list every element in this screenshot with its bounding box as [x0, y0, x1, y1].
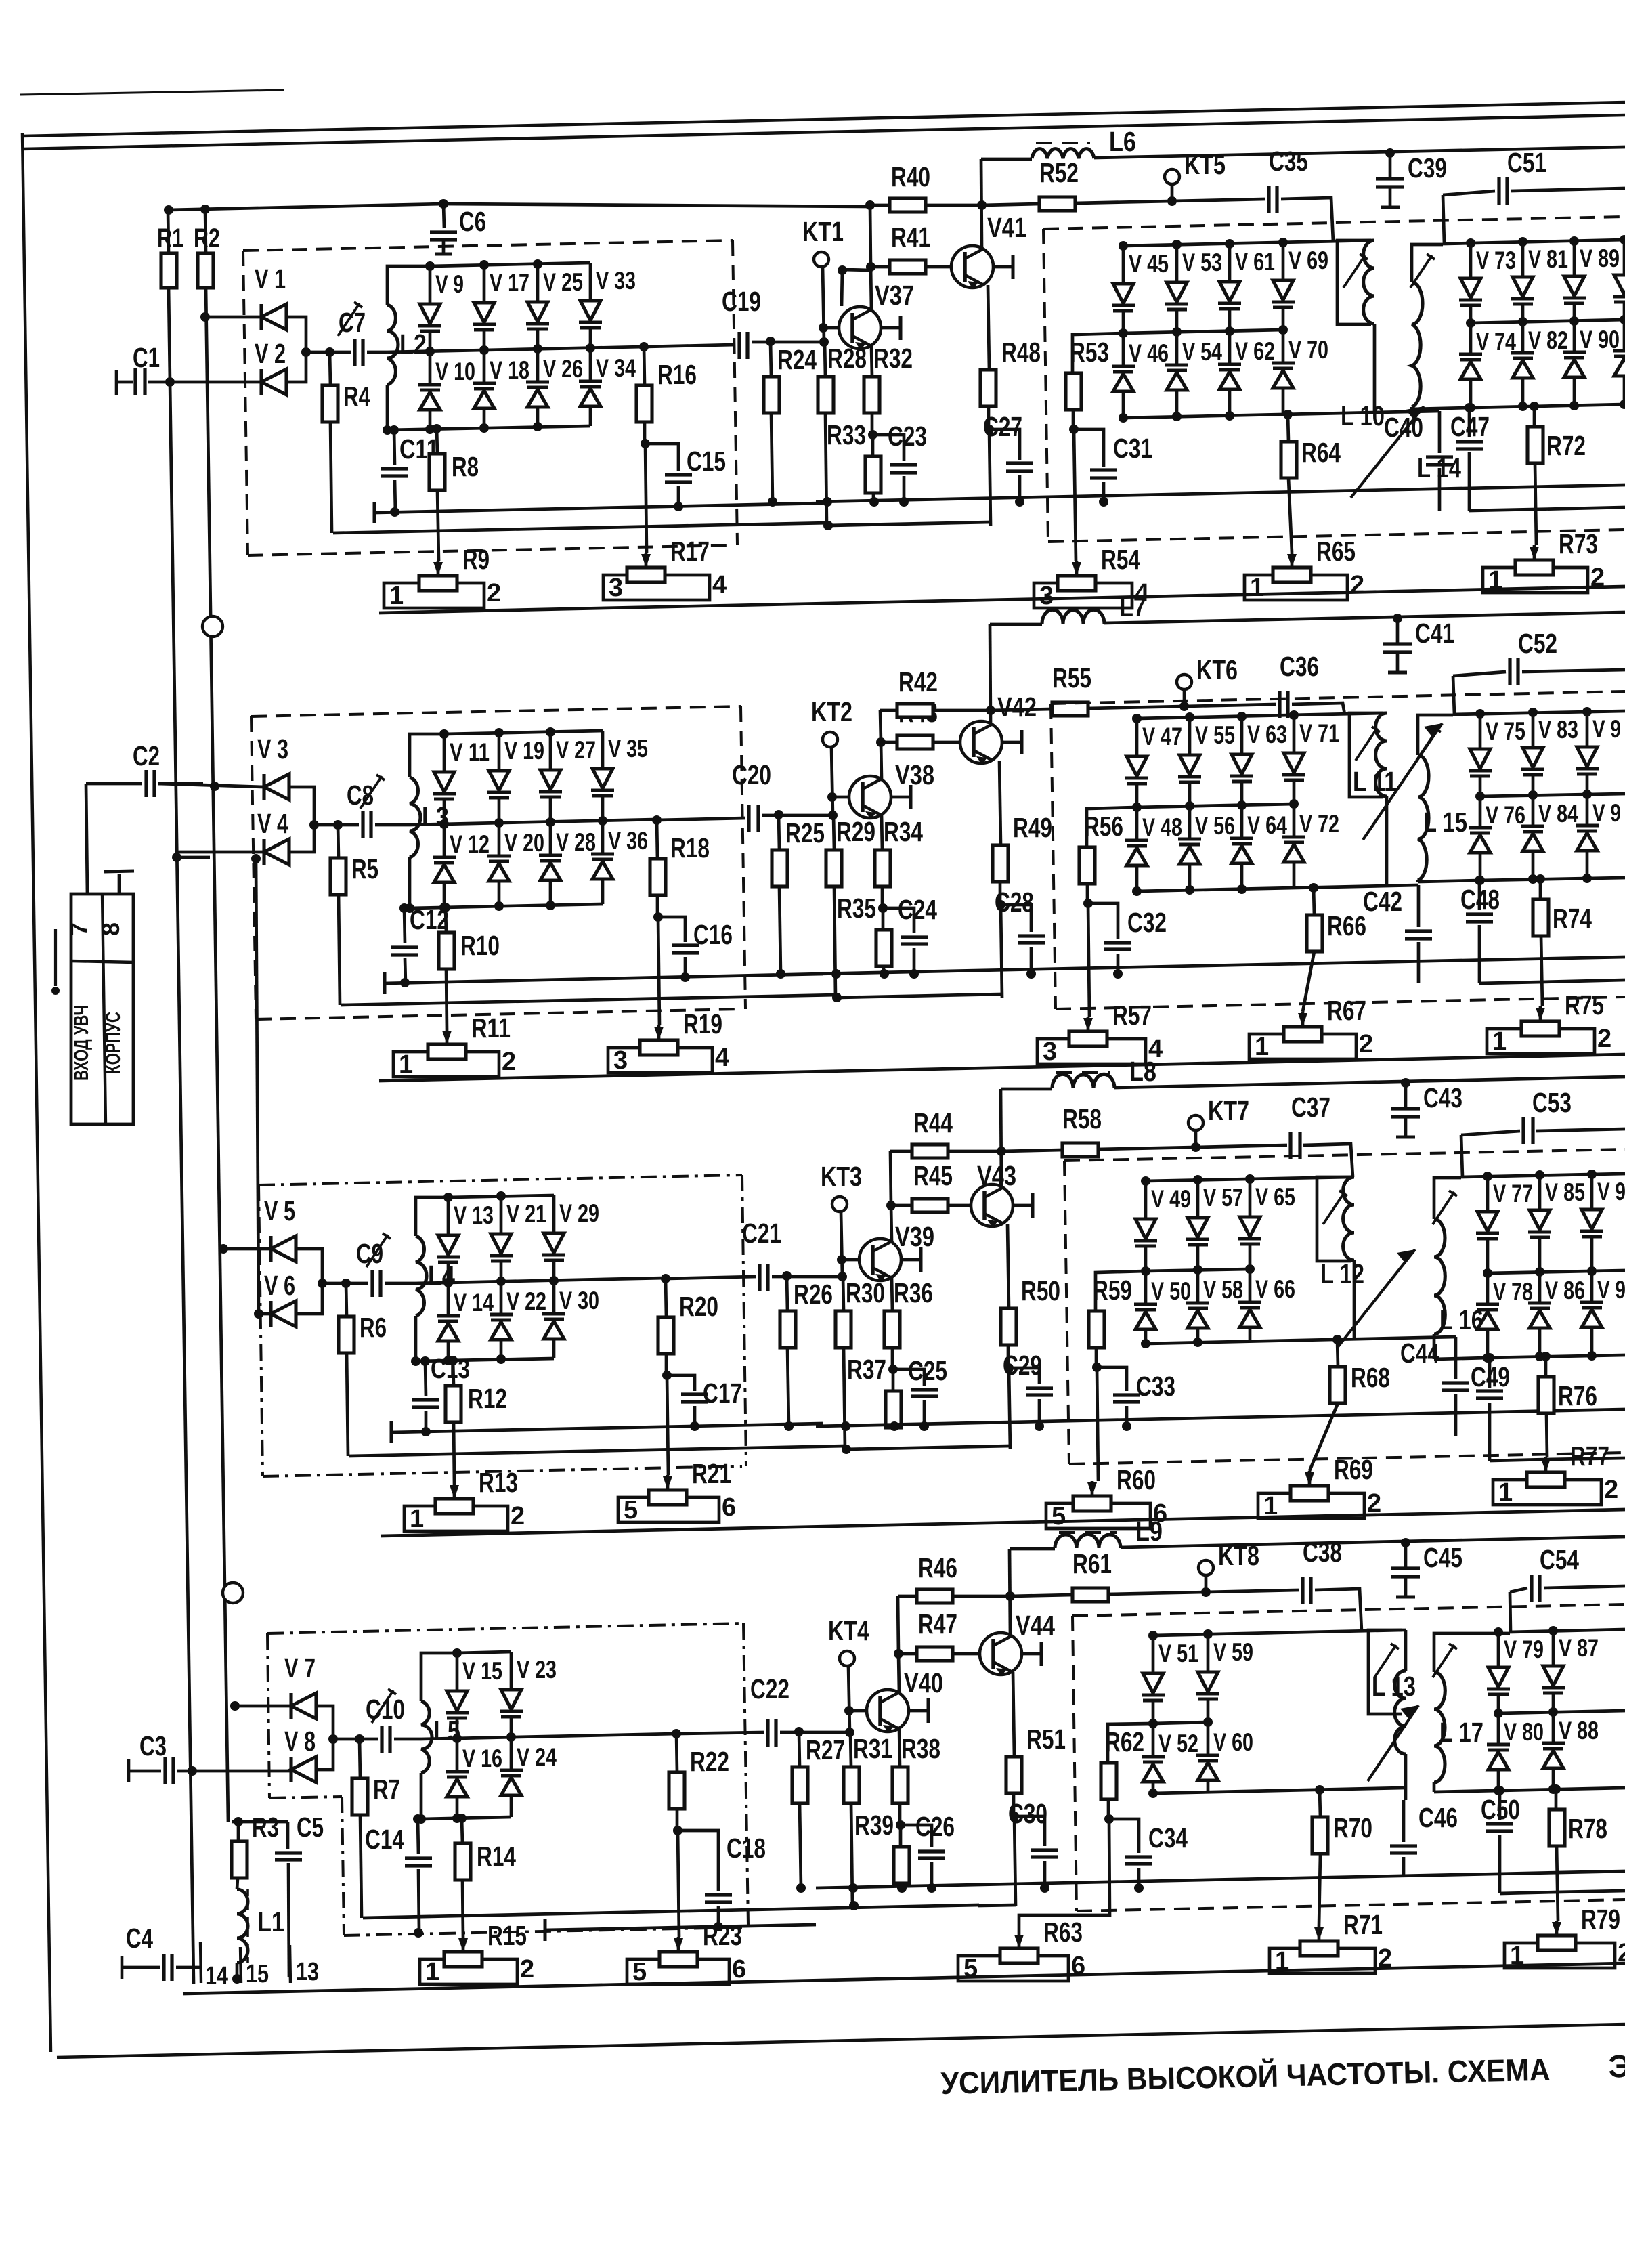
varactor diode V 75	[1479, 714, 1482, 749]
svg-text:C1: C1	[133, 342, 160, 373]
ground bar	[373, 502, 376, 523]
capacitor C10	[380, 1726, 383, 1753]
wire coil top to rail	[387, 266, 430, 305]
svg-text:V37: V37	[875, 280, 914, 311]
varactor diode V 61	[1228, 244, 1232, 282]
test point KT8	[1198, 1560, 1213, 1575]
varactor diode V 13	[447, 1197, 450, 1235]
svg-text:5: 5	[632, 1958, 647, 1986]
svg-text:R58: R58	[1062, 1103, 1102, 1134]
svg-text:R50: R50	[1021, 1275, 1060, 1306]
wire KT riser	[823, 267, 824, 342]
capacitor C42	[1417, 885, 1421, 927]
svg-text:R46: R46	[918, 1552, 957, 1583]
wire varactor top rail	[444, 731, 603, 734]
svg-text:V 57: V 57	[1203, 1184, 1243, 1212]
wire mid rail to output cap	[676, 1732, 764, 1734]
svg-text:R56: R56	[1084, 811, 1123, 842]
varactor diode V 49	[1144, 1181, 1148, 1219]
svg-text:R41: R41	[891, 221, 930, 253]
svg-text:V 2: V 2	[255, 338, 286, 369]
varactor diode V 78	[1486, 1273, 1490, 1304]
frame top border line 2	[22, 115, 1625, 149]
svg-text:R6: R6	[360, 1312, 387, 1343]
svg-text:R24: R24	[777, 344, 817, 375]
svg-text:V 10: V 10	[435, 358, 475, 385]
svg-text:C54: C54	[1540, 1544, 1579, 1575]
svg-text:L 17: L 17	[1439, 1717, 1483, 1748]
wire array B top rail	[1461, 1174, 1625, 1177]
varactor diode V 45	[1122, 246, 1125, 284]
trimmer mark	[338, 303, 360, 336]
capacitor C37	[1196, 1145, 1287, 1147]
capacitor C45	[1401, 1538, 1410, 1547]
varactor diode V 24	[510, 1737, 513, 1770]
svg-text:C23: C23	[888, 421, 927, 452]
potentiometer R21	[663, 1476, 672, 1490]
varactor diode V 90	[1573, 321, 1576, 352]
resistor R72	[1533, 406, 1536, 427]
frame left border	[22, 133, 51, 2052]
svg-text:V40: V40	[904, 1667, 943, 1698]
wire R2 line down	[206, 288, 228, 1822]
svg-text:R26: R26	[794, 1279, 833, 1310]
svg-text:C36: C36	[1280, 651, 1319, 682]
potentiometer R9	[433, 562, 443, 576]
capacitor C28	[1001, 905, 1031, 932]
svg-text:R19: R19	[683, 1008, 722, 1040]
svg-text:C32: C32	[1127, 907, 1167, 938]
resistor R62	[1108, 1724, 1153, 1763]
svg-text:C4: C4	[126, 1923, 153, 1954]
resistor R32	[871, 346, 872, 377]
svg-text:V 82: V 82	[1528, 326, 1568, 354]
resistor R29	[833, 815, 834, 850]
terminal cells 14 15 13	[200, 1942, 201, 1983]
resistor R26	[787, 1277, 787, 1311]
varactor diode V 34	[589, 348, 592, 381]
varactor diode V 60	[1207, 1722, 1210, 1755]
trimmer mark	[372, 1690, 393, 1723]
resistor R27	[799, 1732, 800, 1767]
svg-text:R33: R33	[827, 419, 866, 450]
wire R41 left stub	[842, 270, 842, 306]
svg-text:V 25: V 25	[543, 268, 583, 296]
svg-text:2: 2	[487, 579, 501, 607]
trimmer mark	[360, 776, 382, 809]
wire array A mid rail	[1137, 804, 1294, 807]
varactor diode V 12	[443, 824, 446, 857]
svg-text:R30: R30	[846, 1277, 885, 1308]
varactor diode V 51	[1152, 1635, 1155, 1673]
svg-text:C29: C29	[1003, 1350, 1042, 1381]
svg-text:V 89: V 89	[1580, 244, 1620, 272]
varactor diode V 17	[483, 265, 486, 303]
resistor R6	[346, 1283, 347, 1317]
svg-text:R57: R57	[1112, 1000, 1152, 1031]
svg-text:V 12: V 12	[450, 830, 490, 858]
svg-text:C50: C50	[1481, 1794, 1520, 1825]
svg-text:V 51: V 51	[1158, 1640, 1198, 1667]
varactor diode V 15	[456, 1653, 459, 1691]
varactor diode V 69	[1282, 242, 1285, 280]
resistor R53	[1072, 333, 1123, 373]
varactor diode V 87	[1552, 1631, 1555, 1666]
potentiometer R57	[1083, 1018, 1093, 1031]
svg-text:C26: C26	[915, 1811, 955, 1842]
svg-text:V 6: V 6	[264, 1270, 295, 1301]
svg-text:V 7: V 7	[284, 1652, 316, 1684]
svg-text:V 54: V 54	[1182, 338, 1222, 366]
svg-text:R69: R69	[1334, 1454, 1373, 1485]
svg-text:C28: C28	[995, 886, 1034, 918]
capacitor C26	[901, 1825, 932, 1847]
svg-text:L 13: L 13	[1372, 1671, 1416, 1702]
varactor diode V 25	[536, 264, 540, 302]
svg-text:C21: C21	[742, 1218, 781, 1249]
output block dashed box	[1043, 217, 1625, 229]
input block dashed box	[243, 240, 733, 251]
resistor R78	[1555, 1789, 1558, 1810]
svg-text:R67: R67	[1327, 995, 1366, 1026]
wire collector riser 1	[881, 742, 882, 779]
varactor diode V 57	[1196, 1180, 1200, 1218]
inductor L 17	[1434, 1672, 1445, 1782]
svg-text:C37: C37	[1291, 1092, 1330, 1123]
svg-text:V 81: V 81	[1528, 245, 1568, 273]
transistor V41	[951, 246, 993, 288]
capacitor C29	[1009, 1368, 1039, 1384]
wire array A mid rail	[1153, 1722, 1208, 1724]
capacitor C39	[1385, 148, 1395, 158]
input block dashed box	[267, 1623, 743, 1633]
wire varactor mid rail	[421, 1734, 676, 1739]
transistor V38	[849, 776, 891, 818]
wire array B mid rail	[1480, 794, 1625, 796]
capacitor C6	[443, 204, 444, 228]
svg-text:V 4: V 4	[257, 808, 288, 839]
wire varactor bottom rail	[421, 1817, 511, 1819]
varactor diode V 66	[1249, 1269, 1252, 1302]
ground bar	[383, 972, 387, 994]
svg-text:V 9: V 9	[1592, 799, 1621, 827]
varactor diode V 26	[536, 349, 540, 382]
svg-text:2: 2	[502, 1048, 516, 1076]
wire pot bus row1	[379, 586, 1625, 613]
svg-text:R54: R54	[1101, 544, 1140, 575]
potentiometer R65	[1287, 554, 1297, 568]
svg-text:1: 1	[1250, 574, 1264, 602]
wire KT riser	[831, 747, 833, 815]
varactor diode V 30	[552, 1281, 556, 1314]
svg-text:V38: V38	[895, 759, 934, 790]
resistor R66	[1314, 888, 1314, 915]
svg-text:1: 1	[1492, 1027, 1507, 1056]
svg-text:V 84: V 84	[1538, 800, 1578, 828]
varactor diode V 64	[1240, 805, 1244, 838]
resistor R7	[360, 1739, 360, 1778]
svg-text:2: 2	[520, 1955, 534, 1984]
svg-text:R1: R1	[157, 223, 183, 253]
screen circle a (rows1-2)	[202, 616, 223, 637]
svg-text:R65: R65	[1316, 536, 1356, 567]
svg-text:2: 2	[1604, 1476, 1618, 1504]
wire La bottom	[1385, 796, 1389, 886]
svg-text:R61: R61	[1072, 1548, 1112, 1579]
inductor L5	[421, 1701, 432, 1773]
varactor diode V 33	[589, 263, 592, 301]
resistor R68	[1337, 1340, 1338, 1367]
resistor R36	[892, 1278, 892, 1311]
wire R4 bottom bus	[363, 1905, 979, 1918]
svg-text:R10: R10	[460, 930, 500, 961]
svg-text:R31: R31	[853, 1733, 892, 1764]
resistor R18	[657, 820, 657, 859]
wire C47 R72 bottom link	[1490, 1459, 1547, 1461]
svg-text:L8: L8	[1129, 1056, 1156, 1087]
inductor L 12	[1317, 1177, 1351, 1261]
title text	[940, 2048, 1625, 2101]
coupling arrow	[1363, 723, 1442, 840]
wire L14 bottom to B bottom rail	[1433, 1334, 1436, 1359]
svg-text:V 53: V 53	[1182, 249, 1222, 276]
inductor L1	[237, 1878, 238, 1889]
wire diode join	[316, 1706, 333, 1739]
varactor diode V 46	[1122, 333, 1125, 366]
capacitor C1	[115, 370, 118, 395]
svg-text:KT4: KT4	[828, 1615, 869, 1646]
varactor diode V 82	[1521, 322, 1525, 353]
svg-text:C17: C17	[703, 1377, 742, 1409]
wire pin7 vertical	[86, 784, 87, 894]
varactor diode V 18	[483, 350, 486, 383]
svg-text:V 85: V 85	[1545, 1178, 1585, 1206]
svg-text:V 49: V 49	[1151, 1185, 1191, 1213]
varactor diode V 9	[1590, 1174, 1594, 1210]
svg-text:R12: R12	[468, 1383, 507, 1414]
resistor R4	[330, 352, 330, 385]
resistor R22	[676, 1734, 677, 1772]
svg-text:V44: V44	[1016, 1610, 1055, 1641]
wire L1 bottom	[236, 1963, 239, 1979]
svg-text:C49: C49	[1471, 1361, 1510, 1392]
potentiometer R15	[458, 1938, 468, 1952]
svg-text:KT1: KT1	[802, 216, 844, 247]
capacitor C44	[1454, 1337, 1458, 1379]
svg-text:R72: R72	[1546, 430, 1586, 461]
wire varactor bottom rail	[416, 1358, 554, 1361]
varactor diode V 9	[1586, 712, 1589, 747]
test point KT3	[832, 1197, 847, 1212]
svg-text:C48: C48	[1460, 884, 1500, 915]
svg-text:R48: R48	[1001, 337, 1041, 368]
wire array B top rail	[1443, 240, 1625, 244]
resistor R34	[882, 815, 882, 850]
svg-text:KT5: KT5	[1184, 149, 1226, 180]
svg-text:V 3: V 3	[257, 733, 288, 765]
resistor R44	[890, 1151, 891, 1205]
output block dashed box	[1072, 1604, 1625, 1616]
svg-text:V 14: V 14	[454, 1289, 494, 1317]
svg-text:R2: R2	[194, 223, 220, 253]
resistor R48	[988, 285, 989, 370]
svg-text:4: 4	[712, 571, 727, 599]
wire varactor mid rail	[387, 347, 644, 352]
svg-text:V 36: V 36	[608, 827, 648, 855]
svg-text:ВХОД УВЧ: ВХОД УВЧ	[70, 1005, 93, 1081]
svg-text:5: 5	[624, 1496, 638, 1524]
svg-text:3: 3	[1043, 1037, 1057, 1066]
capacitor C31	[1074, 429, 1104, 467]
varactor diode V 83	[1532, 712, 1535, 748]
svg-text:V 30: V 30	[559, 1287, 599, 1314]
svg-text:V 83: V 83	[1538, 716, 1578, 744]
inductor L9	[1010, 1547, 1055, 1551]
resistor R50	[1007, 1224, 1009, 1308]
wire ground bus	[385, 974, 823, 983]
wire base	[824, 326, 839, 330]
capacitor C48	[1478, 880, 1481, 910]
wire to test point	[1075, 201, 1172, 203]
svg-text:R71: R71	[1343, 1909, 1383, 1940]
resistor R74	[1539, 879, 1542, 899]
wire coil bottom	[420, 1773, 423, 1819]
inductor L6	[981, 158, 1032, 161]
capacitor C32	[1088, 903, 1118, 939]
svg-text:V 61: V 61	[1235, 248, 1275, 276]
potentiometer R60	[1087, 1482, 1097, 1496]
output block dashed box	[1064, 1149, 1625, 1161]
capacitor C46	[1404, 1788, 1408, 1800]
svg-text:C33: C33	[1136, 1371, 1175, 1402]
wire C51 drop	[1453, 676, 1454, 714]
table pointer	[54, 929, 57, 986]
svg-text:C24: C24	[898, 894, 937, 925]
svg-text:V 13: V 13	[454, 1201, 494, 1229]
frame bottom border	[57, 2024, 1625, 2057]
wire La bottom	[1353, 1260, 1356, 1340]
wire C47 R72 bottom link	[1500, 1892, 1557, 1893]
wire coil bottom	[408, 857, 412, 908]
svg-text:C7: C7	[339, 307, 366, 338]
resistor R14	[462, 1818, 462, 1843]
svg-text:L 12: L 12	[1320, 1258, 1364, 1289]
potentiometer R63	[1014, 1935, 1024, 1948]
transistor V37	[839, 307, 881, 349]
svg-text:R27: R27	[806, 1734, 845, 1766]
svg-text:R15: R15	[487, 1920, 527, 1951]
svg-text:R18: R18	[670, 832, 710, 863]
svg-text:V 56: V 56	[1195, 812, 1235, 840]
wire coupling to base	[780, 1731, 850, 1734]
svg-text:2: 2	[1597, 1025, 1611, 1053]
svg-text:КОРПУС: КОРПУС	[102, 1012, 125, 1074]
transistor V39	[859, 1239, 901, 1281]
svg-text:V 58: V 58	[1203, 1276, 1243, 1304]
svg-text:V 47: V 47	[1142, 723, 1182, 750]
svg-text:V 69: V 69	[1288, 247, 1328, 274]
svg-text:R34: R34	[884, 816, 923, 847]
potentiometer R69	[1305, 1472, 1314, 1486]
svg-text:C22: C22	[750, 1673, 789, 1705]
svg-text:R49: R49	[1013, 812, 1052, 843]
capacitor C4	[121, 1956, 124, 1979]
capacitor C25	[893, 1369, 924, 1386]
svg-text:KT2: KT2	[811, 696, 852, 727]
wire coil bottom	[414, 1316, 418, 1361]
capacitor C49	[1488, 1358, 1492, 1388]
capacitor C2	[86, 782, 142, 786]
svg-text:V 29: V 29	[559, 1199, 599, 1227]
svg-text:V 9: V 9	[1597, 1178, 1625, 1205]
svg-text:C42: C42	[1363, 886, 1402, 917]
wire R4 bottom bus	[333, 523, 830, 533]
resistor R39	[899, 1825, 903, 1847]
svg-text:C9: C9	[356, 1238, 383, 1269]
input block dashed box	[251, 706, 741, 716]
diode V 4	[177, 851, 264, 854]
capacitor C21	[758, 1264, 761, 1291]
svg-text:R78: R78	[1568, 1813, 1607, 1844]
varactor diode V 20	[498, 823, 501, 856]
svg-text:R79: R79	[1581, 1904, 1620, 1935]
resistor R45	[891, 1204, 912, 1207]
wire coupling to base	[772, 1275, 842, 1279]
varactor diode V 74	[1469, 323, 1473, 354]
potentiometer R71	[1314, 1927, 1324, 1941]
capacitor C5	[286, 1822, 290, 1849]
capacitor C14	[418, 1819, 418, 1854]
svg-text:R37: R37	[847, 1354, 886, 1385]
inductor L3	[410, 777, 420, 857]
wire diode join	[295, 1249, 322, 1283]
svg-text:C2: C2	[133, 740, 160, 771]
diode V 7	[235, 1705, 291, 1708]
resistor R8	[437, 429, 437, 454]
capacitor C41	[1393, 614, 1402, 623]
wire KT riser	[848, 1666, 850, 1732]
varactor diode V 21	[500, 1196, 503, 1234]
svg-text:5: 5	[1052, 1502, 1066, 1531]
varactor diode V 70	[1282, 330, 1285, 363]
svg-text:L 15: L 15	[1423, 807, 1467, 838]
svg-text:V 27: V 27	[556, 736, 596, 764]
resistor R30	[843, 1277, 844, 1311]
svg-text:7: 7	[65, 922, 93, 936]
varactor diode V 76	[1479, 796, 1482, 828]
inductor L 14	[1412, 282, 1423, 407]
svg-text:R28: R28	[827, 343, 867, 374]
test point KT4	[840, 1651, 854, 1666]
diode V 2	[170, 381, 261, 384]
frame top faint line	[20, 90, 284, 95]
wire La bottom	[1373, 324, 1377, 412]
resistor R56	[1087, 807, 1137, 847]
wire to test point	[1098, 1147, 1196, 1149]
resistor R24	[771, 342, 771, 377]
resistor R10	[446, 907, 446, 933]
varactor diode V 19	[498, 733, 501, 771]
svg-text:C6: C6	[459, 206, 486, 237]
svg-text:V 70: V 70	[1288, 336, 1328, 364]
capacitor C47	[1468, 408, 1471, 437]
svg-text:C20: C20	[732, 759, 771, 790]
svg-text:V 1: V 1	[255, 263, 286, 295]
capacitor C52	[1453, 672, 1506, 676]
svg-text:C18: C18	[727, 1833, 766, 1864]
resistor R2	[205, 210, 206, 253]
svg-text:C15: C15	[687, 446, 726, 477]
